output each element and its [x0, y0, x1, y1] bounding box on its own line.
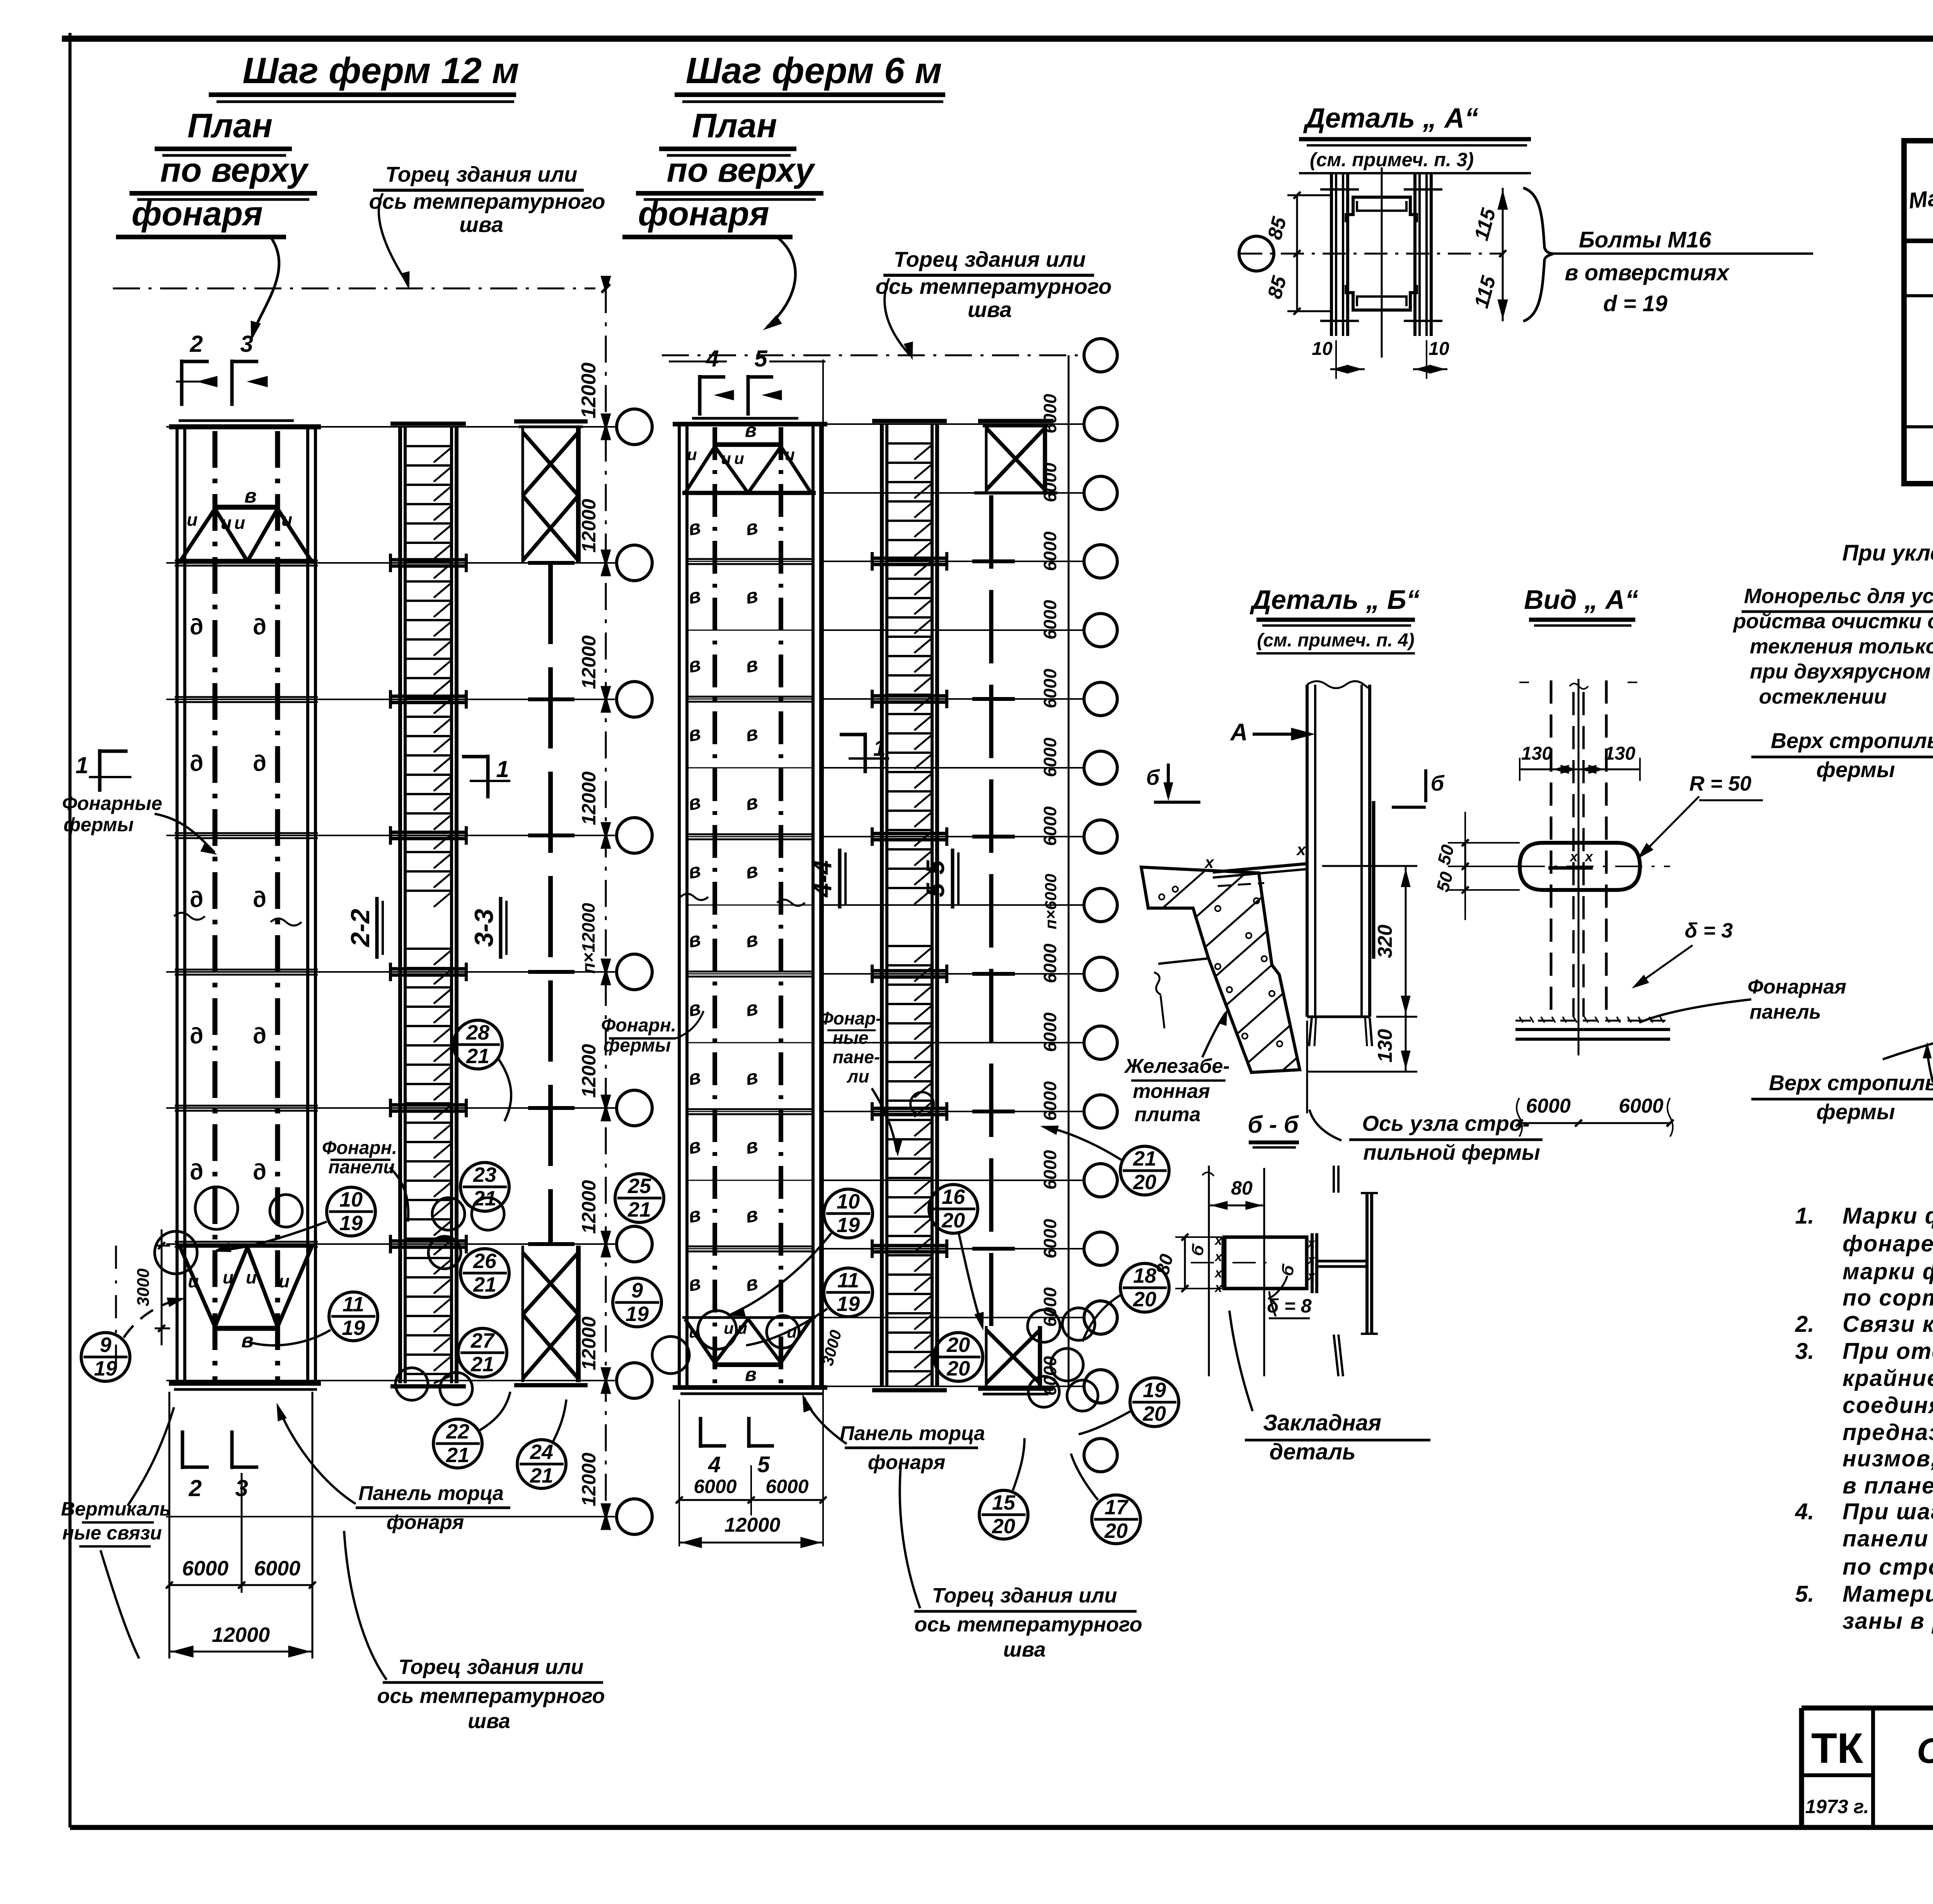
- plan-1 12000 spacing labels: [578, 276, 611, 1530]
- svg-text:6000: 6000: [1619, 1095, 1664, 1117]
- svg-text:марки фонарных ферм и верт: марки фонарных ферм и вертикальных связе…: [1843, 1259, 1933, 1284]
- svg-text:А: А: [1230, 719, 1248, 746]
- svg-text:б - б: б - б: [1248, 1111, 1299, 1138]
- detail-B section mark б (right): [1392, 769, 1445, 807]
- svg-text:и: и: [279, 1271, 290, 1291]
- section-1-1a label Монорельс: [1732, 585, 1933, 708]
- svg-text:d = 19: d = 19: [1603, 291, 1667, 316]
- svg-text:Панель торца: Панель торца: [358, 1482, 504, 1505]
- svg-text:20: 20: [941, 1209, 965, 1232]
- view-A dim 6000 6000: [1516, 1095, 1674, 1137]
- svg-text:по верху: по верху: [666, 151, 815, 189]
- plan-2 dim line 12000: [679, 1514, 823, 1548]
- detail-A left post: [1320, 174, 1359, 336]
- svg-text:4: 4: [706, 346, 719, 372]
- detail-B view arrow А: [1230, 719, 1314, 746]
- svg-text:2: 2: [188, 1475, 201, 1501]
- detail-B axis line: [1306, 1021, 1308, 1113]
- svg-text:Ось узла стро-: Ось узла стро-: [1362, 1111, 1529, 1135]
- svg-text:12000: 12000: [578, 1316, 600, 1370]
- svg-text:деталь: деталь: [1269, 1439, 1355, 1464]
- plan-1 mark circle 28/21: [453, 1020, 511, 1121]
- plan-2 mark circle 10/19: [728, 1189, 873, 1316]
- svg-text:ось температурного: ось температурного: [377, 1684, 605, 1708]
- svg-text:фонаря: фонаря: [638, 194, 769, 233]
- svg-text:Вертикаль: Вертикаль: [61, 1498, 171, 1520]
- svg-text:20: 20: [1133, 1171, 1156, 1194]
- svg-text:по сортаментам на листе 7.: по сортаментам на листе 7.: [1843, 1285, 1933, 1311]
- plan-2 section mark 1: [840, 733, 889, 773]
- plan-1 section mark 1 (left): [75, 749, 131, 792]
- svg-text:фонаря: фонаря: [387, 1511, 464, 1534]
- svg-text:панели приварить к железобе: панели приварить к железобетонной плите …: [1843, 1526, 1933, 1551]
- svg-text:2.: 2.: [1795, 1311, 1814, 1337]
- svg-text:12000: 12000: [578, 499, 600, 552]
- plan-1 mark circle 10/19: [213, 1187, 375, 1252]
- plan-1 bracing strip top plate: [514, 421, 588, 427]
- plan-1 subtitle фонаря: [116, 194, 286, 340]
- plan-2 dim line 6000+6000: [676, 1399, 827, 1546]
- svg-text:130: 130: [1604, 743, 1635, 764]
- plan-2 mark circle 17/20: [1071, 1454, 1140, 1544]
- plan-1 strip break marks: [174, 913, 302, 926]
- svg-text:6000: 6000: [1040, 1012, 1060, 1052]
- plan-2 lantern plan top plate: [673, 418, 827, 424]
- view-A dim 130 130: [1520, 743, 1640, 781]
- section-1-1a label Верх стропильной фермы: [1751, 696, 1933, 782]
- plan-1 lantern plan bottom plate: [169, 1383, 321, 1389]
- svg-text:9: 9: [100, 1333, 111, 1357]
- svg-text:фермы: фермы: [1816, 1099, 1895, 1124]
- svg-text:пане-: пане-: [833, 1047, 880, 1067]
- svg-text:1973 г.: 1973 г.: [1805, 1796, 1869, 1817]
- view-A slot plate R=50: [1520, 843, 1640, 890]
- svg-text:ось температурного: ось температурного: [914, 1613, 1142, 1636]
- svg-text:и: и: [246, 1267, 257, 1287]
- detail-B column: [1307, 681, 1374, 1046]
- svg-text:шва: шва: [459, 212, 503, 237]
- plan-2 bottom section marks 4 and 5: [701, 1417, 774, 1477]
- title block outline: [1802, 1708, 1933, 1827]
- view-A bottom chords: [1515, 1017, 1670, 1039]
- plan-1 label Торец здания (bottom): [344, 1531, 605, 1733]
- svg-text:ось температурного: ось температурного: [876, 274, 1112, 298]
- view-A title Вид А: [1524, 585, 1638, 626]
- plan-2 lantern plan bottom plate: [673, 1388, 827, 1394]
- svg-text:27: 27: [470, 1329, 495, 1352]
- detail-B strut to column: [1204, 840, 1307, 886]
- svg-text:x: x: [1204, 853, 1214, 871]
- plan-2 bracing dashed post: [972, 495, 1015, 1326]
- svg-text:остеклении: остеклении: [1759, 685, 1887, 708]
- svg-text:16: 16: [942, 1185, 965, 1209]
- plan-2 top torec dash line: [662, 355, 1082, 356]
- plan-2 mark circle 15/20: [979, 1438, 1028, 1539]
- svg-text:3-3: 3-3: [469, 909, 499, 947]
- svg-text:Торец здания или: Торец здания или: [385, 162, 578, 186]
- svg-text:10: 10: [837, 1190, 860, 1213]
- plan-2 bottom end truss: [682, 1318, 816, 1385]
- svg-text:по верху: по верху: [160, 151, 309, 189]
- svg-text:21: 21: [470, 1353, 494, 1376]
- plan-1 empty junction circles: [155, 1187, 504, 1405]
- detail-B label Железабетонная плита: [1123, 1010, 1230, 1126]
- svg-text:22: 22: [446, 1420, 469, 1443]
- svg-text:26: 26: [473, 1249, 497, 1273]
- svg-text:21: 21: [1133, 1147, 1156, 1170]
- plan-1 mark circle 25/21: [615, 1174, 664, 1222]
- svg-text:18: 18: [1133, 1264, 1156, 1287]
- svg-text:11: 11: [837, 1269, 859, 1292]
- plan-1 dim line 12000: [169, 1623, 312, 1657]
- svg-text:6000: 6000: [1040, 806, 1060, 846]
- svg-text:шва: шва: [1003, 1638, 1046, 1661]
- svg-text:20: 20: [1142, 1402, 1166, 1425]
- svg-text:1.: 1.: [1795, 1203, 1814, 1229]
- svg-text:4-4: 4-4: [808, 860, 837, 898]
- svg-text:в: в: [745, 1364, 757, 1385]
- svg-text:Связи крепить на болтах но: Связи крепить на болтах нормальной точно…: [1843, 1311, 1933, 1337]
- svg-text:Монорельс для уст-: Монорельс для уст-: [1744, 585, 1933, 608]
- plan-2 label Торец здания (top): [876, 247, 1112, 360]
- svg-text:20: 20: [992, 1515, 1015, 1538]
- svg-text:и: и: [737, 1319, 747, 1337]
- svg-text:Панель торца: Панель торца: [840, 1422, 985, 1445]
- plan-2 lantern plan strip rails: [679, 360, 823, 1546]
- plan-2 dim 3000 at bottom truss: [818, 1328, 845, 1367]
- svg-text:ные связи: ные связи: [62, 1522, 162, 1544]
- svg-text:п×6000: п×6000: [1042, 874, 1060, 929]
- plan-2 strip break marks: [680, 894, 805, 906]
- svg-text:шва: шва: [968, 297, 1012, 322]
- svg-text:фермы: фермы: [63, 814, 134, 835]
- svg-text:Торец здания или: Торец здания или: [398, 1655, 583, 1679]
- svg-text:и: и: [234, 513, 245, 533]
- svg-text:21: 21: [466, 1045, 489, 1068]
- svg-text:предназначенных для креплени: предназначенных для крепления упомянутых…: [1843, 1420, 1933, 1445]
- svg-text:12000: 12000: [578, 1044, 600, 1098]
- svg-text:Деталь „ Б“: Деталь „ Б“: [1249, 585, 1420, 615]
- svg-text:фонарей принимаются по сорт: фонарей принимаются по сортаментам на ли…: [1843, 1231, 1933, 1256]
- plan-1 label Торец здания (top): [369, 162, 605, 289]
- plan-1 mark circle 26/21: [460, 1249, 509, 1297]
- svg-text:20: 20: [1104, 1519, 1128, 1543]
- svg-text:в: в: [241, 1330, 253, 1352]
- svg-text:При уклонах кровли по стро: При уклонах кровли по стропильным фермам…: [1842, 540, 1933, 566]
- detail-A right post: [1404, 174, 1442, 336]
- detail-6-6 label b (weld): [1187, 1242, 1299, 1299]
- plan-1 right top dimension 12000: [578, 284, 610, 418]
- plan-1 label Фонарн панели: [322, 1138, 408, 1222]
- svg-text:3: 3: [240, 331, 253, 357]
- svg-text:6000: 6000: [1526, 1095, 1571, 1117]
- detail-6-6 label Закладная деталь: [1229, 1311, 1430, 1464]
- detail-B title Деталь Б: [1249, 585, 1420, 653]
- svg-text:6000: 6000: [1040, 1219, 1060, 1258]
- svg-text:и: и: [721, 449, 731, 467]
- plan-2 centre dash-dot lines: [715, 427, 781, 1385]
- svg-text:20: 20: [1133, 1288, 1156, 1311]
- svg-text:130: 130: [1521, 743, 1552, 764]
- plan-1 mark circle 24/21: [517, 1399, 566, 1488]
- svg-text:и: и: [785, 445, 795, 464]
- plan-2 ladder strip (view 4-4): [872, 421, 947, 1390]
- plan-2 6000 spacing labels: [1040, 355, 1069, 1396]
- table header rows: [1904, 158, 1933, 241]
- svg-text:по стропильным фермам, как: по стропильным фермам, как показано на д…: [1843, 1554, 1933, 1580]
- svg-text:11: 11: [343, 1293, 364, 1316]
- plan-2 grid circles column: [1084, 339, 1117, 1472]
- plan-1 label Фонарные фермы (left): [62, 793, 216, 854]
- section-1-1b roof arc: [1883, 1009, 1933, 1061]
- svg-text:12000: 12000: [212, 1623, 270, 1647]
- svg-text:130: 130: [1374, 1029, 1396, 1063]
- svg-text:9: 9: [631, 1279, 643, 1302]
- table row в: [1904, 259, 1933, 296]
- plan-1 subtitle по верху: [130, 151, 317, 199]
- svg-text:20: 20: [946, 1357, 970, 1380]
- svg-text:и: и: [221, 513, 232, 533]
- detail-6-6 label delta=8: [1267, 1291, 1312, 1318]
- plan-1 dim line 6000+6000: [166, 1557, 316, 1589]
- plan-2 subtitle по верху: [636, 151, 823, 199]
- svg-text:Фонарн.: Фонарн.: [601, 1015, 676, 1036]
- plan-1 bracing X-truss (top): [523, 427, 578, 563]
- svg-text:320: 320: [1374, 925, 1396, 958]
- detail-A bottom hat channel: [1346, 285, 1417, 310]
- svg-text:текления только: текления только: [1750, 635, 1933, 658]
- svg-text:6000: 6000: [1040, 943, 1060, 983]
- svg-text:1: 1: [75, 752, 88, 778]
- plan-1 section mark 1 (right): [462, 755, 510, 798]
- svg-text:x: x: [1214, 1266, 1223, 1280]
- svg-text:x: x: [1214, 1233, 1223, 1248]
- plan-2 mark circle 20/20: [934, 1333, 983, 1381]
- svg-text:5: 5: [757, 1452, 770, 1477]
- svg-text:19: 19: [339, 1212, 363, 1235]
- plan-1 dim 3000 at bottom truss: [116, 1229, 170, 1376]
- detail-6-6 extension lines: [1202, 1166, 1264, 1376]
- plan-1 label Панель торца фонаря: [277, 1403, 510, 1534]
- svg-text:19: 19: [342, 1316, 365, 1340]
- detail-A dim 115/115 right: [1470, 188, 1508, 321]
- svg-text:80: 80: [1231, 1177, 1253, 1199]
- view-A label R=50: [1638, 772, 1763, 859]
- svg-text:Болты М16: Болты М16: [1579, 227, 1711, 252]
- svg-text:6000: 6000: [694, 1476, 736, 1497]
- svg-text:в отверстиях: в отверстиях: [1565, 260, 1730, 285]
- svg-text:10: 10: [339, 1188, 363, 1211]
- detail-A grid circle: [1239, 236, 1274, 271]
- svg-text:23: 23: [473, 1163, 496, 1186]
- svg-text:и: и: [223, 1267, 234, 1287]
- svg-text:(см. примеч. п. 3): (см. примеч. п. 3): [1310, 149, 1474, 170]
- plan-2 title Шаг ферм 6 м: [675, 50, 945, 102]
- svg-text:6000: 6000: [254, 1557, 300, 1580]
- plan-2 top end truss: [682, 419, 816, 493]
- svg-text:ройства очистки ос-: ройства очистки ос-: [1732, 610, 1933, 633]
- plan-1 label 2-2: [346, 897, 383, 959]
- svg-text:5: 5: [754, 346, 768, 372]
- svg-text:и: и: [687, 445, 697, 464]
- plan-1 top dash-dot line: [113, 288, 595, 290]
- svg-text:Материал конструкций - Сталь: Материал конструкций - Сталь 3. Марки ст…: [1843, 1581, 1933, 1607]
- svg-text:План: План: [188, 106, 273, 145]
- svg-text:ТК: ТК: [1811, 1725, 1863, 1772]
- svg-text:ли: ли: [847, 1066, 869, 1086]
- detail-A leader and note Болты М16: [1523, 188, 1813, 321]
- svg-text:при двухярусном: при двухярусном: [1750, 660, 1931, 683]
- table outer border: [1904, 141, 1933, 484]
- svg-text:2: 2: [189, 331, 203, 357]
- plan-1 mark circle 27/21: [458, 1328, 507, 1377]
- plan-1 ladder strip (view 2-2): [390, 424, 466, 1386]
- svg-text:R = 50: R = 50: [1689, 772, 1752, 795]
- plan-1 bottom extension lines: [169, 1392, 312, 1659]
- detail-6-6 dim 80 left: [1152, 1234, 1222, 1292]
- plan-1 label 3-3: [469, 897, 506, 959]
- plan-1 lantern centre dash-dot lines: [215, 431, 278, 1380]
- svg-text:21: 21: [473, 1273, 496, 1296]
- detail-B dim 320: [1322, 866, 1417, 1017]
- svg-text:3000: 3000: [134, 1268, 153, 1306]
- plan-2 label Панель торца фонаря: [803, 1394, 985, 1474]
- plan-2 panel separators: [688, 493, 812, 1318]
- plan-1 horizontal grid lines: [166, 427, 617, 1517]
- svg-text:План: План: [692, 106, 777, 145]
- plan-1 bracing dashed post: [528, 563, 574, 1246]
- svg-text:в: в: [244, 485, 256, 507]
- svg-text:5-5: 5-5: [921, 860, 949, 897]
- svg-text:12000: 12000: [578, 1180, 600, 1234]
- plan-1 mark circle 11/19: [247, 1292, 378, 1345]
- svg-text:и: и: [187, 510, 198, 530]
- svg-text:б: б: [1431, 771, 1445, 795]
- plan-2 mark circle 11/19: [746, 1268, 873, 1345]
- svg-text:12000: 12000: [578, 771, 600, 825]
- svg-text:6000: 6000: [1040, 1150, 1060, 1190]
- plan-1 section mark 2 (bottom): [182, 1430, 209, 1501]
- plan-1 mark circle 9/19 (right): [613, 1278, 661, 1327]
- svg-text:Шаг ферм 12 м: Шаг ферм 12 м: [242, 50, 519, 91]
- svg-text:25: 25: [627, 1174, 651, 1198]
- svg-text:15: 15: [992, 1491, 1016, 1514]
- plan-1 grid circles column: [617, 409, 652, 1534]
- svg-text:Фонарная: Фонарная: [1747, 976, 1846, 998]
- svg-text:(см. примеч. п. 4): (см. примеч. п. 4): [1257, 630, 1414, 651]
- plan-2 empty junction circles: [652, 1092, 1098, 1411]
- svg-text:x: x: [1296, 840, 1306, 859]
- svg-text:1: 1: [873, 736, 886, 761]
- svg-text:28: 28: [466, 1021, 489, 1044]
- svg-text:2-2: 2-2: [346, 909, 375, 948]
- svg-text:6000: 6000: [1040, 1287, 1060, 1327]
- plan-2 bracing X-truss (top): [974, 424, 1057, 493]
- notes text block: [1795, 1203, 1933, 1634]
- svg-text:Верх стропильной: Верх стропильной: [1769, 1070, 1933, 1095]
- svg-text:Закладная: Закладная: [1263, 1410, 1381, 1435]
- view-A vertical dashed edges: [1519, 679, 1637, 1055]
- plan-1 bottom end truss: [177, 1246, 315, 1352]
- svg-text:19: 19: [1143, 1379, 1166, 1402]
- svg-text:20: 20: [946, 1333, 970, 1357]
- plan-2 bracing X-truss (bottom): [978, 1326, 1053, 1394]
- plan-2 label Фонарные панели (mid): [820, 1008, 902, 1156]
- svg-text:Торец здания или: Торец здания или: [932, 1584, 1117, 1607]
- plan-2 subtitle фонаря: [622, 194, 795, 330]
- svg-text:Вид „ А“: Вид „ А“: [1524, 585, 1638, 615]
- svg-text:При отсутствии механизмов о: При отсутствии механизмов открывания пер…: [1843, 1338, 1933, 1364]
- plan-1 mark circle 9/19 (left): [81, 1298, 185, 1381]
- detail-6-6 dim 80 top: [1209, 1177, 1264, 1210]
- svg-text:24: 24: [530, 1440, 553, 1464]
- plan-1 mark circle 22/21: [433, 1392, 510, 1468]
- detail-6-6 I-beam: [1312, 1166, 1378, 1376]
- svg-text:12000: 12000: [578, 363, 600, 419]
- plan-2 horizontal grid lines: [823, 424, 1084, 1386]
- svg-text:6000: 6000: [1040, 600, 1060, 639]
- detail-A centre lines: [1239, 167, 1504, 358]
- detail-B dim 130: [1307, 1017, 1417, 1072]
- plan-2 в panel labels: [686, 516, 760, 1296]
- plan-1 bay separators: [175, 561, 318, 1247]
- plan-2 section mark 4 (top): [669, 346, 734, 416]
- plan-1 section mark 3 (top): [232, 331, 268, 406]
- svg-text:пильной фермы: пильной фермы: [1363, 1140, 1540, 1164]
- svg-text:4.: 4.: [1795, 1499, 1814, 1524]
- svg-text:и: и: [188, 1271, 199, 1291]
- svg-text:ось температурного: ось температурного: [369, 189, 605, 213]
- svg-text:фермы: фермы: [1816, 757, 1895, 782]
- svg-text:6000: 6000: [765, 1476, 808, 1497]
- plan-1 subtitle План: [155, 106, 292, 155]
- section-1-1b label Фонарная панель (left): [1639, 976, 1846, 1023]
- plan-1 label Фонарн фермы (right): [601, 1011, 704, 1056]
- svg-text:Верх стропильной: Верх стропильной: [1771, 728, 1933, 753]
- plan-1 bracing X-truss (bottom): [514, 1246, 588, 1385]
- svg-text:10: 10: [1312, 339, 1333, 359]
- svg-text:6000: 6000: [1040, 737, 1060, 777]
- svg-text:п×12000: п×12000: [578, 903, 598, 973]
- svg-text:x: x: [1584, 849, 1594, 864]
- svg-text:12000: 12000: [578, 1452, 600, 1506]
- plan-1 д panel labels: [187, 613, 269, 1185]
- plan-1 top end truss: [177, 485, 315, 561]
- svg-text:6000: 6000: [1040, 1081, 1060, 1121]
- title block ТК cell: [1802, 1725, 1873, 1817]
- svg-text:6000: 6000: [1040, 531, 1060, 571]
- svg-text:19: 19: [626, 1302, 649, 1326]
- svg-text:фонаря: фонаря: [868, 1451, 945, 1474]
- detail-A dim 85/85 left: [1263, 192, 1332, 315]
- svg-text:6000: 6000: [1040, 668, 1060, 708]
- plan-2 mark circle 18/20: [1082, 1263, 1169, 1341]
- plan-2 bracing top plate: [978, 421, 1053, 426]
- svg-text:10: 10: [1428, 339, 1449, 359]
- svg-text:фонаря: фонаря: [131, 194, 263, 233]
- svg-text:5.: 5.: [1795, 1581, 1814, 1607]
- svg-text:Железабе-: Железабе-: [1123, 1055, 1230, 1077]
- svg-text:и: и: [724, 1319, 734, 1337]
- svg-text:заны в разделе V пояснител: заны в разделе V пояснительной записки.: [1843, 1608, 1933, 1634]
- svg-text:12000: 12000: [724, 1514, 781, 1536]
- svg-text:19: 19: [94, 1357, 117, 1380]
- svg-text:в плане).: в плане).: [1843, 1473, 1933, 1498]
- svg-text:Шаг ферм 6 м: Шаг ферм 6 м: [686, 50, 942, 91]
- plan-2 mark circle 19/20: [1079, 1378, 1179, 1434]
- svg-text:крайние стойки смежных фона: крайние стойки смежных фонарных панелей …: [1843, 1365, 1933, 1391]
- svg-text:Марки фонарных панелей и: Марки фонарных панелей и панелей торцов: [1843, 1203, 1933, 1229]
